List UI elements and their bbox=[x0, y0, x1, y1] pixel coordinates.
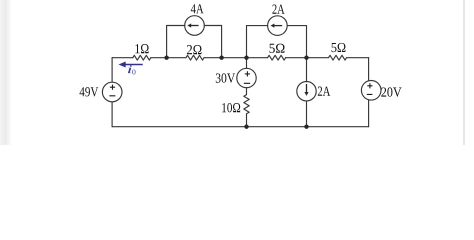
arrow inside 2A source bbox=[271, 24, 283, 28]
label i0 sub0 bbox=[132, 69, 135, 74]
node D dot main wire x306.5 bbox=[304, 56, 308, 60]
current source I3 2A down circle bbox=[297, 82, 316, 101]
resistor R4 5ohm zigzag bbox=[329, 55, 347, 60]
plus minus signs 49V bbox=[109, 85, 115, 96]
wire 2A down branch bbox=[306, 58, 308, 127]
label 10ohm bbox=[222, 103, 240, 112]
wire 30V branch bbox=[246, 58, 248, 95]
label 2ohm bbox=[187, 45, 202, 54]
resistor R2 2ohm zigzag bbox=[186, 55, 204, 60]
label i0 i bbox=[128, 65, 132, 73]
node B dot main wire x222 bbox=[219, 56, 223, 60]
wire 2A loop bbox=[247, 26, 307, 58]
resistor R5 10ohm vertical zigzag bbox=[244, 95, 249, 127]
label 5ohm b bbox=[332, 43, 346, 52]
resistor R1 1ohm zigzag bbox=[133, 55, 151, 60]
wire 20V branch bbox=[368, 58, 370, 127]
node A dot main wire x166.6 bbox=[164, 56, 168, 60]
wire main top horizontal bbox=[112, 57, 369, 59]
voltage source V1 49V circle bbox=[102, 82, 122, 102]
voltage source V2 30V circle bbox=[237, 68, 256, 87]
wire 4A loop bbox=[167, 26, 222, 58]
wire left branch 49V bbox=[111, 58, 113, 127]
current arrow i0 blue bbox=[119, 62, 143, 68]
plus minus signs 30V bbox=[244, 71, 250, 83]
node F dot bottom wire x306.5 bbox=[304, 125, 308, 129]
label 2A top bbox=[272, 5, 284, 14]
label 1ohm bbox=[135, 44, 148, 53]
resistor R3 5ohm zigzag bbox=[268, 55, 286, 60]
label 4A bbox=[191, 4, 204, 13]
label 5ohm a bbox=[270, 44, 285, 53]
node E dot bottom wire x246.5 bbox=[244, 125, 248, 129]
label 49V bbox=[80, 87, 99, 96]
arrow inside 2A down source bbox=[304, 84, 308, 96]
node C dot main wire x246.5 bbox=[244, 56, 248, 60]
arrow inside 4A source bbox=[187, 23, 198, 27]
plus minus signs 20V bbox=[367, 83, 373, 94]
current source I2 2A circle bbox=[268, 16, 288, 36]
label 2A right bbox=[318, 87, 331, 96]
voltage source V3 20V circle bbox=[361, 81, 381, 101]
label 20V bbox=[381, 87, 401, 96]
current source I1 4A circle bbox=[185, 16, 205, 36]
label 30V bbox=[216, 73, 235, 82]
wire bottom horizontal bbox=[112, 126, 369, 128]
